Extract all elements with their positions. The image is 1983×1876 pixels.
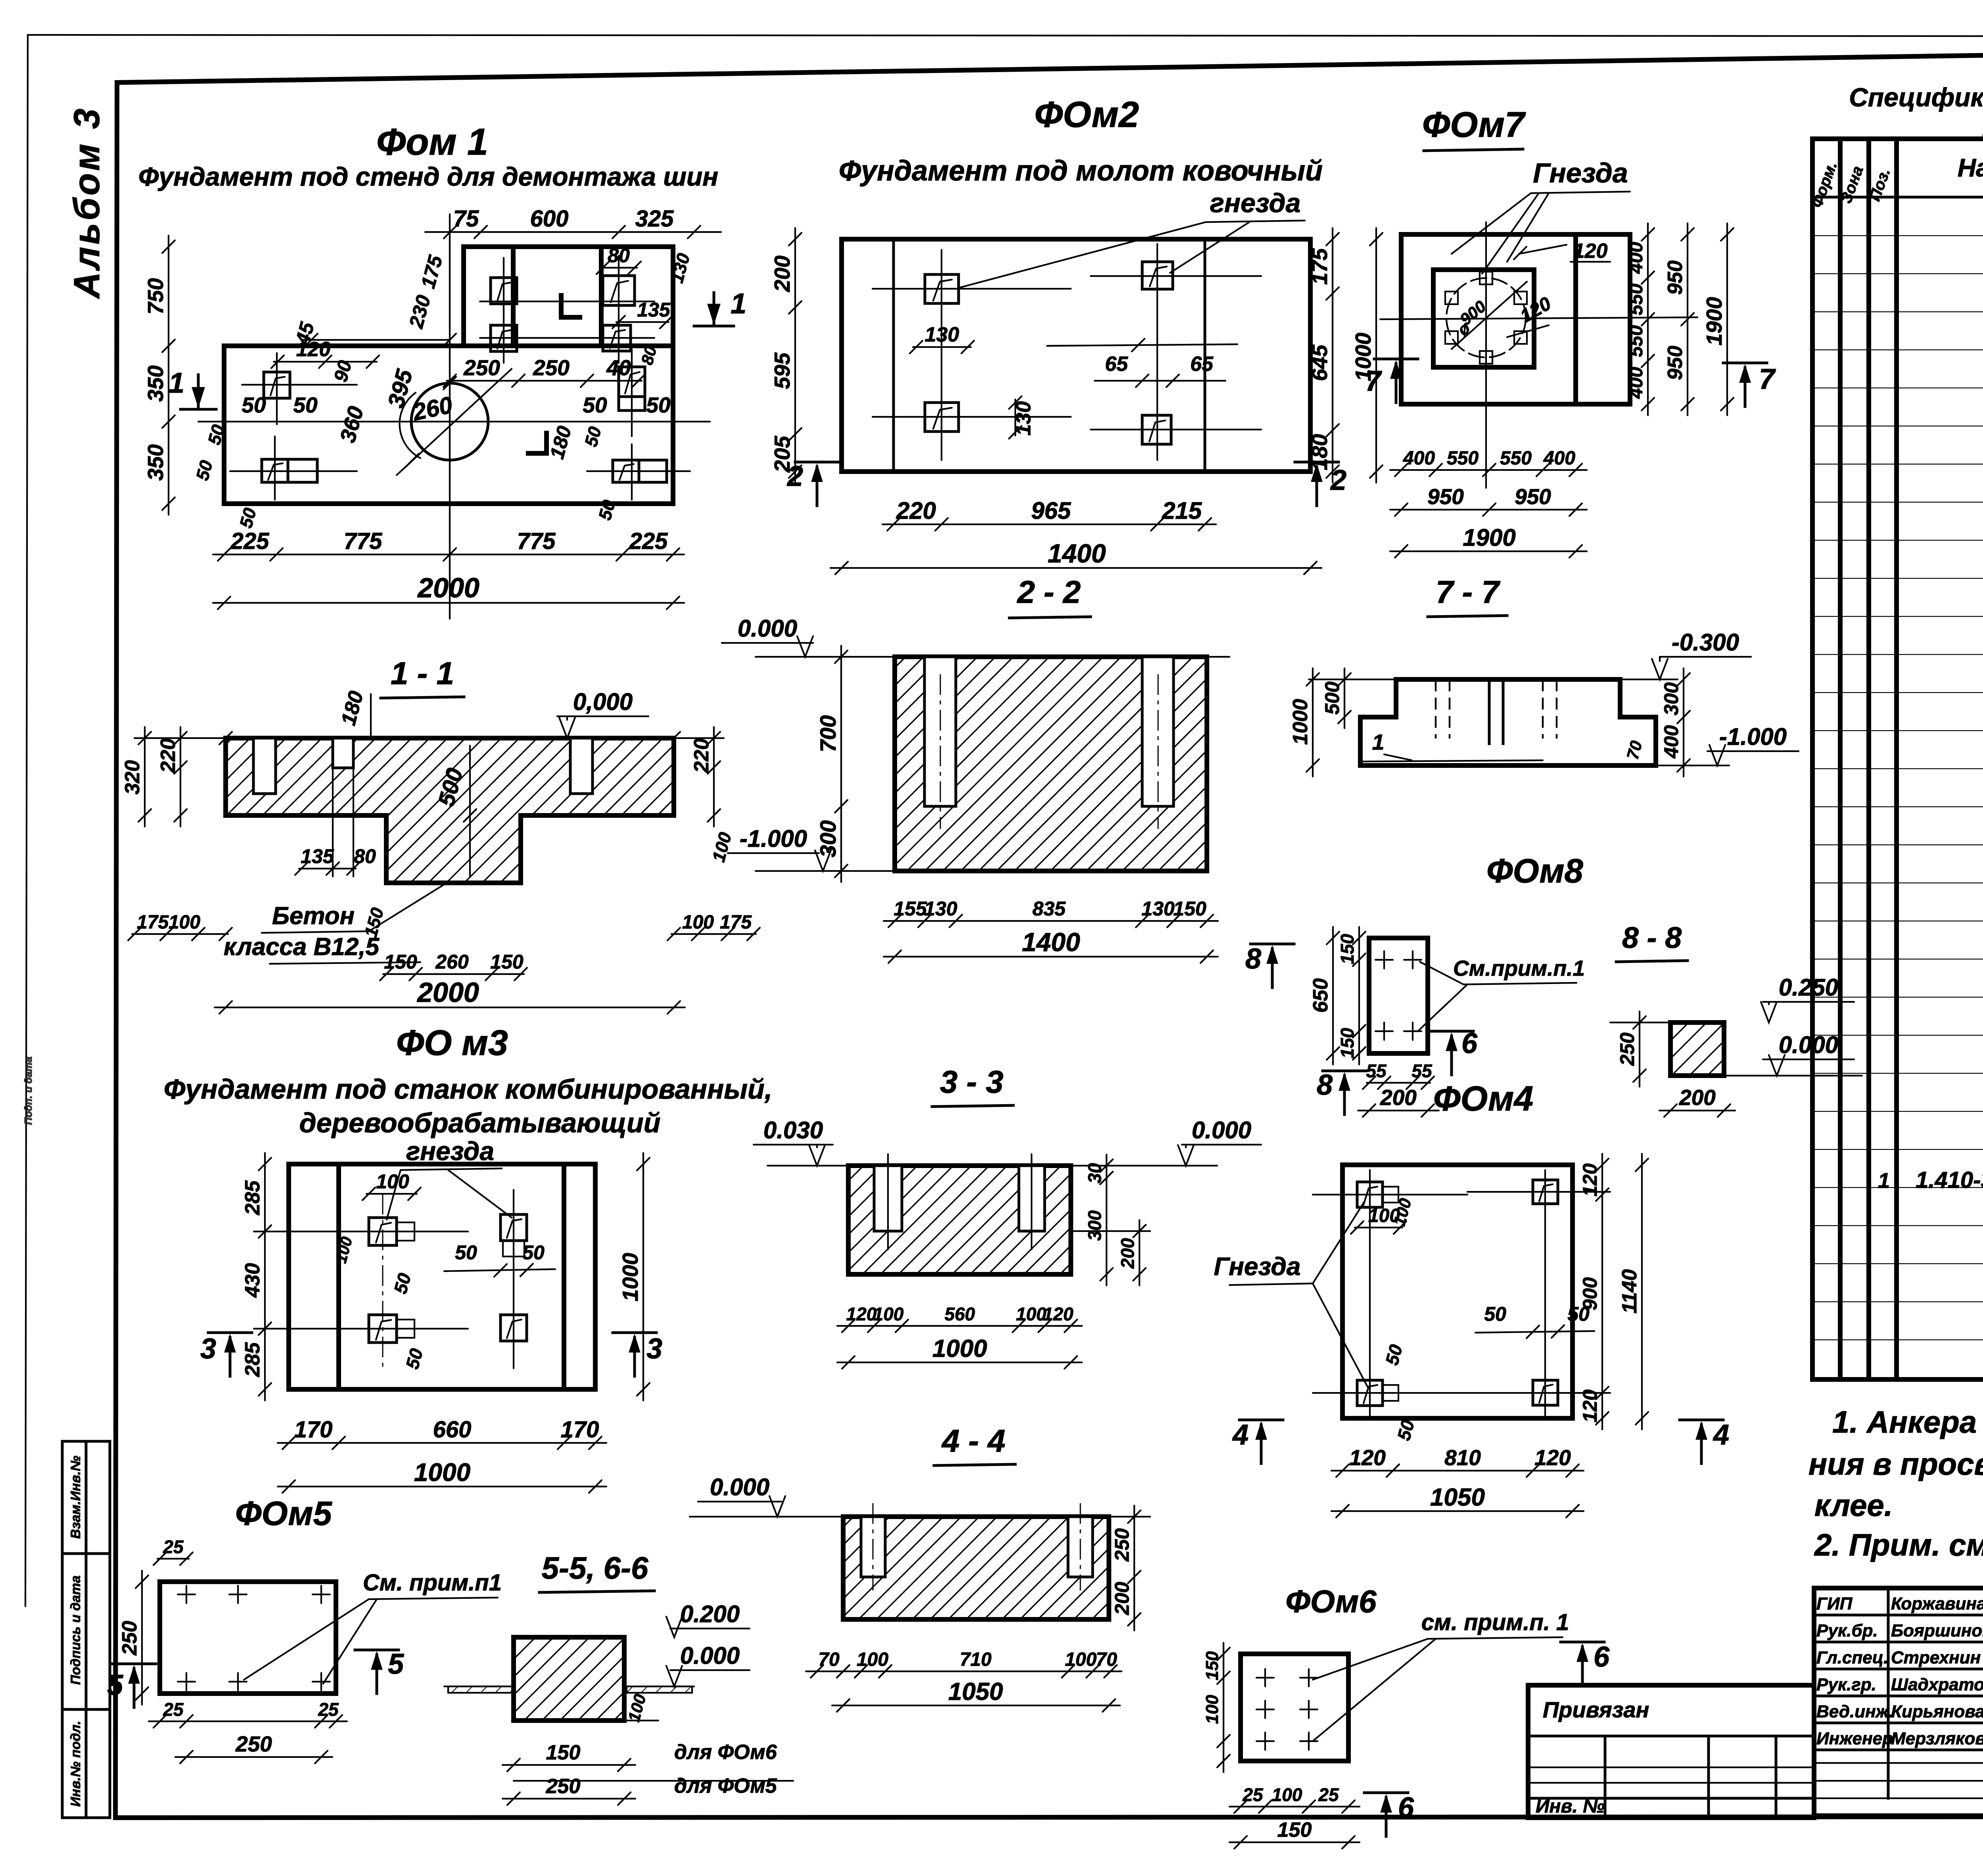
svg-text:100: 100 — [857, 1649, 888, 1670]
svg-text:250: 250 — [533, 355, 570, 380]
FOm7 dim 120 b — [1507, 293, 1555, 337]
FOm7 bottom dims r3 — [1390, 524, 1587, 558]
spec header texts — [1808, 148, 1983, 210]
svg-text:гнезда: гнезда — [1210, 188, 1301, 218]
FOm3 section mark 3 right — [613, 1333, 662, 1376]
section 7-7 top line ext — [1309, 679, 1678, 680]
FOm3 anchor BL — [369, 1315, 414, 1343]
section 1-1 body — [226, 738, 674, 883]
svg-text:Спецификация монолитных конс: Спецификация монолитных конструкций фунд… — [1849, 82, 1983, 112]
svg-text:1: 1 — [1878, 1169, 1890, 1193]
svg-text:1900: 1900 — [1463, 524, 1515, 551]
svg-text:550: 550 — [1447, 448, 1479, 469]
svg-text:660: 660 — [433, 1417, 472, 1442]
svg-text:250: 250 — [1111, 1528, 1133, 1562]
section 3-3 surface — [767, 1165, 1217, 1166]
svg-text:для ФОм6: для ФОм6 — [674, 1741, 777, 1764]
FOm6 title — [1285, 1584, 1377, 1619]
svg-text:55: 55 — [1366, 1061, 1387, 1081]
section 1-1 slot B — [570, 738, 593, 794]
section 8-8 ground left — [1610, 1022, 1670, 1023]
section 1-1 bottom dims left — [128, 912, 232, 940]
FOm8 see note label — [1418, 956, 1585, 1031]
FOm3 anchor BR — [501, 1315, 527, 1341]
svg-text:320: 320 — [121, 760, 144, 795]
svg-text:1400: 1400 — [1022, 927, 1080, 957]
section 5-5 title — [539, 1550, 654, 1592]
FOm4 anchor BL — [1357, 1380, 1398, 1406]
FOm6 bottom dims — [1229, 1784, 1360, 1849]
svg-text:Фундамент под молот ковочный: Фундамент под молот ковочный — [839, 155, 1323, 187]
svg-text:1.410-3 вып.1: 1.410-3 вып.1 — [1916, 1167, 1983, 1193]
FOm1 anchor S2 — [603, 276, 635, 305]
svg-text:250: 250 — [546, 1775, 581, 1798]
FOm2 title — [839, 94, 1323, 187]
svg-text:0.030: 0.030 — [763, 1117, 823, 1143]
FOm1 top dims — [425, 206, 721, 238]
FOm5 dims top — [153, 1536, 193, 1565]
svg-text:835: 835 — [1032, 898, 1066, 920]
FOm7 circle diag — [1452, 282, 1527, 349]
section 3-3 mark 4 — [0, 0, 0, 0]
svg-text:См. прим.п1: См. прим.п1 — [363, 1570, 502, 1596]
FOm5 title — [235, 1495, 332, 1533]
svg-text:175: 175 — [1307, 248, 1332, 285]
svg-text:2 - 2: 2 - 2 — [1016, 574, 1081, 610]
FOm2 left dims — [770, 228, 802, 483]
section 8-8 level 0.000 — [1763, 1032, 1854, 1076]
svg-text:30: 30 — [1084, 1163, 1105, 1184]
section 1-1 title — [381, 656, 464, 698]
section 4-4 slot B — [1068, 1503, 1093, 1590]
svg-text:Инженер: Инженер — [1816, 1729, 1893, 1748]
spec table verticals — [1840, 139, 1983, 1379]
FOm7 plan divider — [1573, 234, 1578, 404]
spec table title — [1849, 82, 1983, 142]
section 2-2 slot B — [1142, 657, 1174, 829]
section 1-1 surface line — [134, 732, 724, 744]
svg-text:2: 2 — [1330, 464, 1346, 496]
FOm8 left dims — [1309, 927, 1365, 1065]
svg-text:400: 400 — [1543, 448, 1575, 469]
svg-text:4 - 4: 4 - 4 — [941, 1423, 1005, 1458]
FOm1 dims 250 250 40 — [443, 355, 645, 387]
FOm7 bottom dims r1 — [1390, 448, 1587, 476]
svg-text:4: 4 — [1232, 1419, 1248, 1451]
svg-text:120: 120 — [1579, 1389, 1601, 1423]
svg-text:0.000: 0.000 — [738, 615, 797, 642]
svg-text:5-5, 6-6: 5-5, 6-6 — [542, 1550, 648, 1585]
FOm4 bottom dims r1 — [1331, 1445, 1584, 1477]
svg-text:170: 170 — [561, 1417, 599, 1442]
svg-text:см. прим.п. 1: см. прим.п. 1 — [1421, 1609, 1569, 1635]
FOm7 hor centerline — [1380, 317, 1697, 319]
svg-text:7 - 7: 7 - 7 — [1436, 574, 1501, 610]
section 1-1 slot C — [333, 738, 353, 768]
svg-text:Кирьянова: Кирьянова — [1891, 1702, 1983, 1721]
title block border — [1814, 1588, 1983, 1816]
FOm8 plan crosses — [1375, 951, 1421, 1040]
svg-text:150: 150 — [1337, 1028, 1358, 1058]
svg-text:1000: 1000 — [414, 1458, 470, 1487]
privyazan label — [1543, 1697, 1649, 1722]
svg-text:250: 250 — [235, 1732, 272, 1756]
FOm2 gnezda label — [960, 188, 1305, 288]
svg-text:550: 550 — [1626, 325, 1647, 357]
svg-text:25: 25 — [318, 1699, 339, 1720]
svg-text:135: 135 — [637, 299, 671, 321]
svg-text:-1.000: -1.000 — [1719, 723, 1787, 750]
section 3-3 slot A — [874, 1154, 902, 1249]
svg-text:Привязан: Привязан — [1543, 1697, 1649, 1722]
svg-text:430: 430 — [241, 1263, 264, 1298]
svg-text:50: 50 — [242, 393, 266, 417]
svg-text:50: 50 — [522, 1241, 545, 1264]
svg-text:215: 215 — [1162, 497, 1202, 524]
FOm1 anchor S4 — [603, 325, 631, 351]
section 5-5 bottom dims — [502, 1741, 793, 1805]
FOm5 plan outline — [160, 1582, 336, 1694]
svg-text:180: 180 — [1307, 434, 1332, 470]
left stamp box — [62, 1441, 110, 1818]
FOm7 section mark 7 left — [0, 0, 0, 0]
svg-text:50: 50 — [583, 393, 607, 417]
FOm8 bottom dims — [1358, 1061, 1439, 1117]
FOm2 inner verticals — [894, 239, 1205, 472]
FOm3 gnezda label — [387, 1136, 512, 1220]
FOm7 section mark 7 right — [1723, 363, 1776, 407]
FOm4 mark 4 right — [1680, 1419, 1729, 1464]
FOm4 right dims — [1579, 1154, 1648, 1429]
svg-text:50: 50 — [646, 393, 671, 417]
svg-text:1000: 1000 — [618, 1253, 642, 1301]
svg-text:400: 400 — [1626, 242, 1647, 274]
svg-text:ФОм2: ФОм2 — [1034, 94, 1139, 135]
svg-text:285: 285 — [241, 1180, 264, 1216]
svg-text:250: 250 — [118, 1621, 141, 1656]
FOm1 dim 120 — [271, 338, 379, 368]
svg-text:645: 645 — [1307, 344, 1332, 381]
svg-text:класса В12,5: класса В12,5 — [224, 933, 380, 961]
note line 1 — [1832, 1404, 1983, 1439]
svg-text:2: 2 — [786, 460, 803, 492]
section 2-2 level -1.000 — [728, 825, 895, 871]
svg-text:250: 250 — [1616, 1032, 1638, 1066]
svg-text:75: 75 — [453, 206, 479, 232]
section 5-5 body — [514, 1637, 624, 1721]
FOm4 dim 100a — [1351, 1196, 1415, 1234]
svg-text:1000: 1000 — [1289, 699, 1312, 745]
svg-text:3 - 3: 3 - 3 — [940, 1064, 1003, 1099]
section 7-7 outline — [1360, 679, 1656, 765]
section 7-7 leader 1 — [1360, 730, 1543, 762]
note line 4 — [1814, 1527, 1983, 1562]
section 7-7 slots dashed — [1436, 679, 1557, 744]
section 8-8 bottom dim — [1659, 1085, 1735, 1117]
section 1-1 dim 180 — [337, 689, 371, 738]
FOm1 plan notch — [511, 247, 516, 346]
svg-text:155: 155 — [894, 898, 927, 920]
FOm2 bottom dims r1 — [882, 497, 1216, 531]
svg-text:120: 120 — [1573, 240, 1608, 263]
section 7-7 level -0.300 — [1652, 629, 1751, 679]
svg-text:260: 260 — [435, 951, 469, 973]
FOm3 bottom dims r2 — [278, 1458, 606, 1493]
svg-text:Фом 1: Фом 1 — [376, 121, 488, 163]
svg-text:4: 4 — [1713, 1419, 1729, 1451]
svg-text:175: 175 — [137, 912, 169, 933]
privyazan table border — [1528, 1685, 1814, 1818]
svg-text:775: 775 — [517, 528, 556, 554]
svg-text:ФОм5: ФОм5 — [235, 1495, 332, 1533]
svg-text:220: 220 — [690, 739, 713, 773]
section 1-1 dim 2000 — [215, 977, 685, 1014]
FOm2 section mark 2 left — [786, 460, 839, 506]
svg-text:1: 1 — [731, 288, 746, 320]
svg-text:3: 3 — [646, 1333, 662, 1365]
svg-text:120: 120 — [1534, 1445, 1571, 1470]
svg-text:65: 65 — [1190, 353, 1214, 376]
svg-text:Шадхратова: Шадхратова — [1891, 1675, 1983, 1694]
faint left margin text — [22, 1057, 34, 1125]
FOm1 bottom dims r1 — [213, 528, 684, 561]
svg-text:ГИП: ГИП — [1816, 1594, 1853, 1613]
FOm3 bottom dims r1 — [278, 1417, 606, 1449]
svg-text:1400: 1400 — [1048, 539, 1106, 568]
FOm7 dim 120 a — [1514, 240, 1610, 263]
section 4-4 bottom dims r1 — [806, 1649, 1122, 1678]
FOm1 plan right step — [599, 247, 604, 346]
FOm4 title — [1433, 1079, 1533, 1118]
svg-text:150: 150 — [384, 951, 417, 973]
svg-text:130: 130 — [1012, 401, 1035, 436]
FOm1 bottom dims r2 — [213, 572, 684, 609]
spec table border — [1812, 139, 1983, 1379]
svg-text:для ФОм5: для ФОм5 — [674, 1774, 777, 1797]
FOm2 anchor TR — [1142, 262, 1173, 289]
section 2-2 left dims — [815, 646, 848, 882]
svg-text:-0.300: -0.300 — [1672, 629, 1739, 656]
FOm7 circle bolts — [1445, 272, 1527, 364]
svg-text:285: 285 — [241, 1342, 264, 1377]
svg-text:55: 55 — [1411, 1061, 1433, 1081]
FOm1 dims 50 50 left — [242, 393, 318, 417]
svg-text:900: 900 — [1579, 1277, 1601, 1310]
FOm3 left dims — [241, 1153, 271, 1400]
section 5-5 ground left — [444, 1686, 514, 1693]
svg-text:Фундамент под стенд для демон: Фундамент под стенд для демонтажа шин — [138, 162, 718, 191]
FOm8 section mark 6 — [1430, 1028, 1478, 1075]
FOm1 plan top band bottom — [464, 343, 673, 348]
svg-text:Вед.инж.: Вед.инж. — [1816, 1702, 1893, 1721]
svg-text:100: 100 — [682, 912, 714, 933]
spec table row lines — [1812, 197, 1983, 1379]
FOm7 circle — [1446, 278, 1526, 357]
svg-text:Гл.спец.: Гл.спец. — [1816, 1648, 1888, 1667]
section 2-2 bottom dims r1 — [884, 898, 1218, 927]
svg-text:200: 200 — [1111, 1582, 1133, 1615]
FOm4 mark 4 left — [1232, 1419, 1283, 1464]
svg-text:100: 100 — [1065, 1649, 1097, 1670]
section 8-8 left dim — [1616, 1011, 1646, 1087]
svg-text:40: 40 — [606, 355, 631, 380]
svg-text:130: 130 — [1141, 898, 1175, 920]
FOm1 anchor center lines — [230, 256, 690, 500]
svg-text:300: 300 — [1084, 1210, 1105, 1241]
svg-text:Взам.Инв.№: Взам.Инв.№ — [68, 1456, 83, 1538]
svg-text:200: 200 — [1679, 1085, 1716, 1110]
section 4-4 surface — [690, 1516, 1150, 1517]
svg-text:клее.: клее. — [1814, 1488, 1893, 1523]
FOm1 corner L marks — [528, 295, 580, 453]
svg-text:1. Анкера закладывают при у: 1. Анкера закладывают при установке обор… — [1832, 1404, 1983, 1439]
svg-text:300: 300 — [815, 820, 840, 857]
FOm8 title — [1486, 852, 1583, 890]
FOm3 dim 100 top — [362, 1170, 421, 1200]
svg-text:Мерзлякова: Мерзлякова — [1891, 1729, 1983, 1748]
FOm2 anchor BR — [1142, 415, 1171, 444]
svg-text:965: 965 — [1031, 497, 1072, 524]
svg-text:Подп. и дата: Подп. и дата — [22, 1057, 34, 1125]
svg-text:400: 400 — [1626, 367, 1647, 399]
FOm1 dim 80 — [596, 244, 641, 274]
svg-text:6: 6 — [1594, 1641, 1610, 1673]
svg-text:200: 200 — [1117, 1238, 1138, 1269]
svg-text:595: 595 — [770, 352, 794, 389]
svg-text:-1.000: -1.000 — [740, 825, 807, 852]
FOm1 section mark 1 left — [169, 367, 216, 409]
svg-text:950: 950 — [1664, 346, 1687, 380]
FOm5 mark 5 right — [355, 1648, 404, 1694]
section 7-7 title — [1428, 574, 1507, 617]
title block signatures — [1816, 1594, 1983, 1748]
svg-text:5: 5 — [107, 1669, 123, 1701]
section 7-7 level -1.000 — [1656, 723, 1799, 765]
svg-text:150: 150 — [1337, 934, 1358, 964]
title block signature rows — [1814, 1588, 1983, 1816]
svg-text:220: 220 — [896, 497, 936, 524]
svg-text:ФОм7: ФОм7 — [1422, 105, 1526, 145]
svg-text:350: 350 — [143, 444, 168, 481]
section 4-4 right dims — [1111, 1506, 1141, 1630]
section 8-8 body — [1670, 1022, 1724, 1076]
svg-text:135: 135 — [301, 845, 334, 867]
svg-text:650: 650 — [1309, 978, 1332, 1013]
FOm2 anchor centerlines — [873, 244, 1261, 460]
svg-text:120: 120 — [1579, 1163, 1601, 1197]
section 3-3 title — [932, 1064, 1013, 1107]
FOm1 center lines — [198, 214, 710, 619]
svg-text:25: 25 — [163, 1536, 184, 1557]
FOm3 inner verticals — [339, 1164, 564, 1389]
FOm4 anchor BR — [1533, 1380, 1558, 1405]
svg-text:25: 25 — [1242, 1784, 1264, 1805]
section 3-3 bottom dims r1 — [837, 1304, 1082, 1332]
FOm7 plan outer — [1401, 234, 1630, 404]
svg-text:0.000: 0.000 — [710, 1474, 769, 1500]
FOm1 dim line 45 — [301, 334, 456, 346]
svg-text:100: 100 — [169, 912, 200, 933]
section 7-7 left dims — [1289, 668, 1351, 777]
FOm3 plan outline — [289, 1164, 595, 1389]
svg-text:Коржавина: Коржавина — [1891, 1594, 1983, 1613]
svg-text:150: 150 — [1173, 898, 1206, 920]
FOm3 anchor TL — [369, 1218, 414, 1245]
section 1-1 dims 135 80 — [295, 754, 376, 877]
FOm7 vert centerline — [1485, 222, 1487, 488]
spec table header line — [1812, 196, 1983, 199]
svg-text:См.прим.п.1: См.прим.п.1 — [1453, 956, 1585, 980]
svg-text:100: 100 — [1202, 1695, 1222, 1724]
FOm1 anchor S1 — [491, 278, 517, 304]
svg-text:100: 100 — [1016, 1304, 1047, 1324]
svg-text:120: 120 — [1349, 1445, 1386, 1470]
section 2-2 surface line — [756, 656, 1229, 658]
svg-text:25: 25 — [1318, 1784, 1339, 1805]
svg-text:3: 3 — [200, 1333, 216, 1365]
svg-text:100: 100 — [873, 1304, 904, 1324]
svg-text:80: 80 — [354, 845, 376, 867]
FOm1 section mark 1 right — [694, 288, 746, 326]
section 1-1 level 0.000 — [557, 689, 648, 738]
FOm4 dims 50 — [1381, 1303, 1594, 1442]
section 1-1 left dims — [121, 727, 187, 827]
svg-text:50: 50 — [1484, 1303, 1506, 1325]
svg-text:6: 6 — [1398, 1792, 1414, 1824]
FOm6 plan outline — [1241, 1654, 1348, 1761]
svg-text:25: 25 — [163, 1699, 184, 1720]
section 4-4 level 0.000 — [698, 1474, 785, 1517]
FOm3 title — [396, 1023, 508, 1063]
svg-text:300: 300 — [1660, 682, 1682, 715]
FOm1 circle 260 — [397, 369, 512, 475]
svg-text:гнезда: гнезда — [406, 1136, 494, 1166]
svg-text:Наименование: Наименование — [1958, 153, 1983, 182]
svg-text:65: 65 — [1105, 353, 1128, 376]
section 4-4 body — [843, 1517, 1109, 1619]
svg-text:500: 500 — [1321, 681, 1343, 715]
section 1-1 beton label — [224, 884, 444, 964]
svg-text:0,000: 0,000 — [573, 689, 633, 715]
section 3-3 right dims — [1071, 1155, 1150, 1285]
FOm4 bottom dims r2 — [1331, 1484, 1584, 1517]
svg-text:8 - 8: 8 - 8 — [1622, 921, 1682, 954]
svg-text:350: 350 — [143, 365, 168, 402]
section 8-8 mark near 2-2 — [1245, 943, 1294, 988]
section 5-5 ground right — [624, 1686, 694, 1693]
svg-text:775: 775 — [344, 528, 383, 554]
svg-text:150: 150 — [1277, 1818, 1312, 1841]
FOm2 plan outline — [842, 239, 1310, 472]
svg-text:550: 550 — [1500, 448, 1532, 469]
svg-text:50: 50 — [293, 393, 318, 417]
FOm2 dim 130 top — [910, 323, 974, 353]
svg-text:250: 250 — [463, 355, 500, 380]
svg-text:170: 170 — [294, 1417, 333, 1442]
svg-text:0.000: 0.000 — [680, 1642, 740, 1669]
FOm5 see note — [244, 1570, 502, 1684]
svg-text:Рук.бр.: Рук.бр. — [1816, 1621, 1878, 1640]
svg-text:1900: 1900 — [1702, 297, 1726, 345]
svg-text:5: 5 — [388, 1648, 404, 1680]
svg-text:Фундамент под станок комбиниро: Фундамент под станок комбинированный, — [164, 1074, 773, 1105]
section 8-8 level 0.250 — [1761, 974, 1854, 1022]
svg-text:Стрехнин: Стрехнин — [1891, 1648, 1981, 1667]
svg-text:Инв.№ подл.: Инв.№ подл. — [68, 1721, 83, 1807]
section 5-5 level 0.000 — [666, 1642, 750, 1686]
svg-text:950: 950 — [1664, 261, 1687, 295]
FOm3 section mark 3 left — [200, 1333, 252, 1376]
